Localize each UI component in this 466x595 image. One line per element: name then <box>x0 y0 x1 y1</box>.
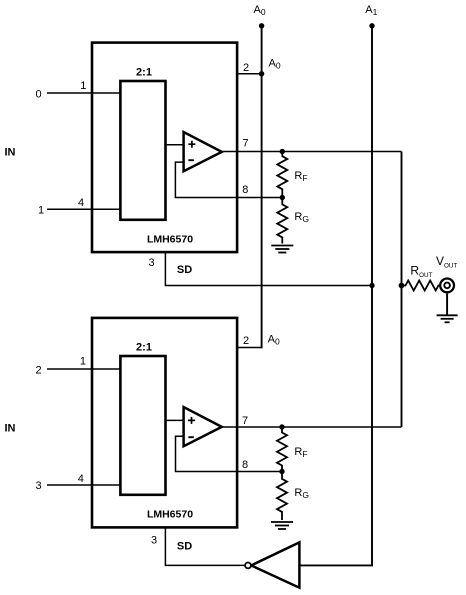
svg-text:IN: IN <box>5 423 16 435</box>
svg-text:2:1: 2:1 <box>136 67 152 79</box>
resistor RG (top) <box>277 198 287 244</box>
svg-text:3: 3 <box>35 480 41 492</box>
wire A0 rail vertical <box>261 26 263 348</box>
svg-text:LMH6570: LMH6570 <box>147 233 193 245</box>
ground below RG (bottom) <box>271 522 293 529</box>
U1 2:1 mux box <box>120 81 165 220</box>
junction U1 pin 8 / RF-RG <box>280 195 285 200</box>
terminal VOUT inner circle <box>444 283 450 289</box>
wire output rail vertical <box>401 152 403 428</box>
junction A1 rail / U1 SD wire <box>369 283 374 288</box>
U2 LMH6570 outer box <box>92 318 237 528</box>
resistor RF (top) <box>277 152 287 198</box>
svg-text:1: 1 <box>38 205 44 217</box>
resistor RG (bottom) <box>277 472 287 521</box>
op-amp U1 plus sign <box>188 141 195 148</box>
wire VOUT terminal to ground <box>446 294 448 316</box>
wire input 1 to U1 pin 4 <box>47 208 120 210</box>
op-amp U2 minus sign <box>188 436 193 438</box>
junction U2 pin 8 / RF-RG <box>279 469 284 474</box>
svg-text:IN: IN <box>5 147 16 159</box>
svg-text:7: 7 <box>242 415 248 427</box>
op-amp U2 plus sign <box>188 417 195 424</box>
svg-text:2: 2 <box>243 62 249 74</box>
wire U2 SD pin 3 down and right to inverter output <box>165 527 245 565</box>
svg-text:3: 3 <box>151 535 157 547</box>
wire mux U1 output to op-amp + input <box>166 144 184 146</box>
op-amp U1 amplifier triangle <box>184 132 222 171</box>
resistor RF (bottom) <box>277 427 287 472</box>
op-amp U2 amplifier triangle <box>184 407 222 446</box>
svg-text:7: 7 <box>243 138 249 150</box>
wire U2 pin 7 op-amp output to output rail <box>222 426 402 428</box>
svg-text:2: 2 <box>243 335 249 347</box>
junction U2 pin 7 / RF2 <box>279 424 284 429</box>
wire input 2 to U2 pin 1 <box>47 368 120 370</box>
wire mux U2 output to op-amp + input <box>166 419 184 421</box>
svg-text:2:1: 2:1 <box>136 342 152 354</box>
wire U2 feedback from - input down to pin 8 <box>176 436 283 471</box>
wire input 3 to U2 pin 4 <box>47 484 120 486</box>
wire U2 pin 2 to A0 rail end <box>237 347 262 349</box>
U2 2:1 mux box <box>120 356 165 495</box>
ground below RG (top) <box>271 246 293 253</box>
inverter U3 output bubble <box>245 563 251 569</box>
svg-text:1: 1 <box>80 356 86 368</box>
node A0 terminal <box>259 23 264 28</box>
wire U1 pin 2 to A0 rail <box>237 73 262 75</box>
svg-text:8: 8 <box>242 459 248 471</box>
ground below VOUT <box>437 315 458 322</box>
svg-text:2: 2 <box>35 364 41 376</box>
svg-text:3: 3 <box>148 257 154 269</box>
svg-text:4: 4 <box>78 473 84 485</box>
junction output rail / ROUT <box>399 283 405 289</box>
wire U1 pin 7 op-amp output to output rail <box>222 151 402 153</box>
svg-text:8: 8 <box>242 184 248 196</box>
wire U1 feedback from - input down to pin 8 <box>175 162 282 197</box>
svg-text:1: 1 <box>80 80 86 92</box>
wire A1 rail vertical down to inverter input <box>299 26 372 566</box>
node A1 terminal <box>369 23 374 28</box>
terminal VOUT outer circle <box>440 279 454 293</box>
junction U1 pin 7 / RF1 <box>280 149 285 154</box>
junction A0 rail / U1 pin 2 <box>259 71 264 76</box>
resistor ROUT <box>402 281 441 291</box>
svg-text:LMH6570: LMH6570 <box>147 508 193 520</box>
svg-text:0: 0 <box>35 88 41 100</box>
svg-text:SD: SD <box>177 541 192 553</box>
op-amp U1 minus sign <box>188 159 193 161</box>
svg-text:4: 4 <box>78 197 84 209</box>
wire U1 SD pin 3 down and right to A1 rail <box>165 252 372 285</box>
svg-text:SD: SD <box>177 264 192 276</box>
U1 LMH6570 outer box <box>92 43 237 253</box>
inverter U3 triangle <box>251 542 299 587</box>
wire input 0 to U1 pin 1 <box>47 92 120 94</box>
